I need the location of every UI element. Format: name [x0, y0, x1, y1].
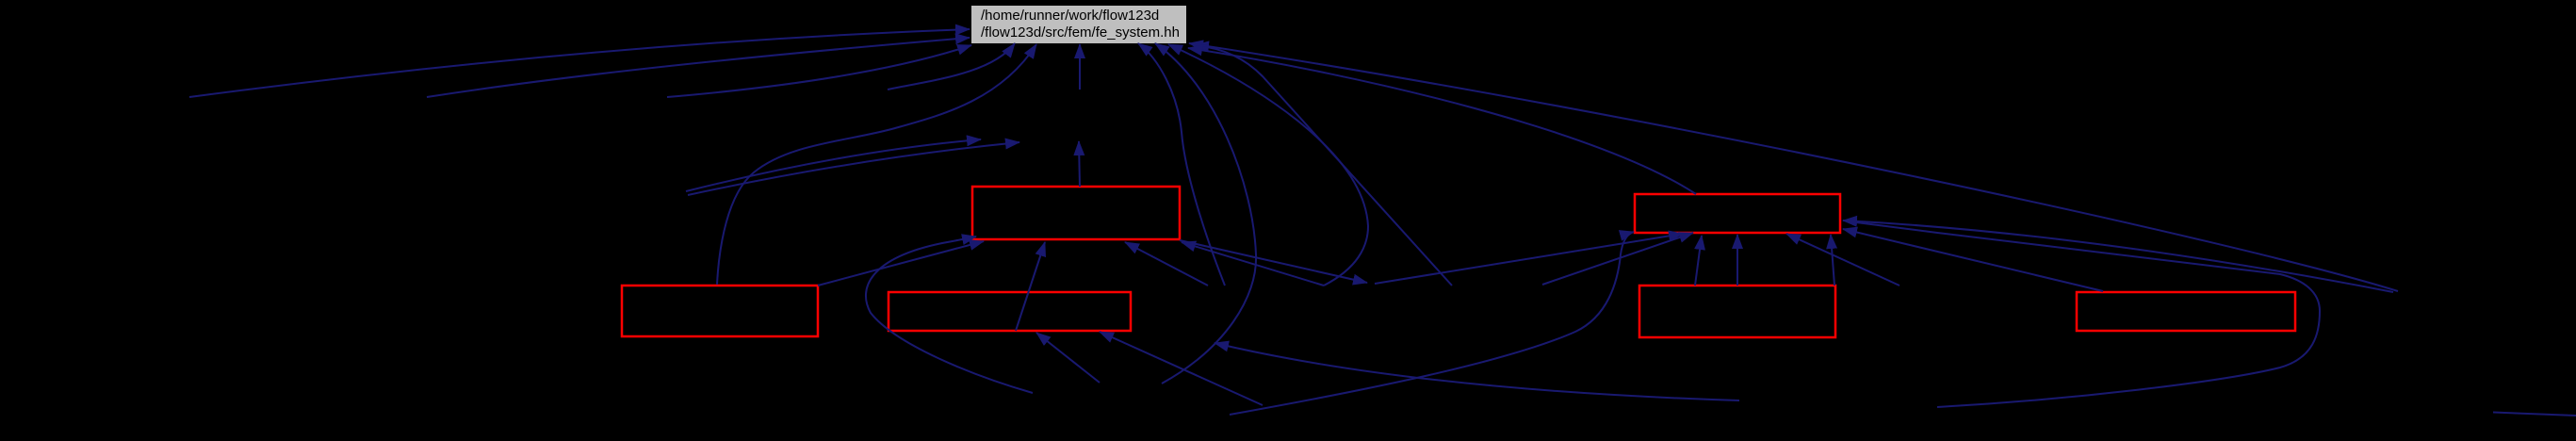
edge E22: box5 top-left area to box2 bottom [1695, 236, 1702, 286]
edge E7: bundle curve k1 from row3 invisible node to root bottom-right [1138, 43, 1225, 286]
node box6 (red, row3 right) [2077, 292, 2295, 331]
edge E6a: invisible row1 node I1 to root (vertical) [1079, 44, 1081, 90]
edge E11: box2 to root right edge [1188, 48, 1696, 194]
edge E6c: row2 node to I1 left edge (doubled pair 1) [686, 139, 981, 191]
edge E16: row4 node to box4 bottom right [1100, 332, 1263, 405]
edge E28: big arc c_big around box6 to box2 right edge [1856, 222, 2320, 407]
edge E6d: row2 node to I1 bottom (doubled pair 2) [688, 142, 1019, 195]
edge E27: lineL from far-right node to box2 right edge [1843, 220, 2393, 292]
edge E20: S1 long line from row4 node to N_b bottom-left [1215, 343, 1739, 400]
node box5 (red, row3 right-mid) [1639, 286, 1835, 337]
edge E23: box5 top to box2 bottom (vertical) [1736, 235, 1738, 286]
edge E18: row3 invisible node to box1 bottom-right corner [1182, 242, 1324, 286]
node box2 (red, row2 right) [1635, 194, 1840, 233]
edge E4: row1 node to root bottom edge [888, 43, 1015, 90]
edge E8: bundle curve k2 from row4 invisible node to root bottom-right [1155, 43, 1256, 384]
edge E15: row4 node to box4 bottom (near vertical) [1036, 333, 1100, 383]
edge E13: C-hook from row4 node around box4 left to box1 bottom-left [866, 237, 1033, 393]
edge E6b: box1 top to I1 bottom (vertical) [1079, 141, 1080, 187]
edge E9: bundle curve k3 from row3 invisible node to root bottom-right [1168, 44, 1368, 286]
edge E3: row1 node to root bottom-left corner [667, 45, 971, 97]
edge E9b: steep straight edge from row3 node N_c to root corner [1195, 45, 1452, 286]
edge E31: box5 top-right corner to box2 bottom [1831, 235, 1834, 286]
node box3 (red, row3 left) [622, 286, 818, 336]
edge E25: box6 top-left corner to box2 bottom-right [1843, 229, 2103, 291]
edge E26: big curve cA from row4 node to box2 left edge [1230, 232, 1634, 415]
edge E5: box3 S-curve up to root bottom [717, 44, 1036, 285]
edge E17: row3 invisible node N_b to box1 bottom [1125, 242, 1208, 286]
svg-text:/home/runner/work/flow123d: /home/runner/work/flow123d [981, 8, 1159, 24]
edge E21a: N_c top-left to box2 bottom-left (long flat) [1375, 234, 1683, 284]
edge E24: N_d row3 node to box2 bottom [1786, 234, 1899, 286]
node root: /home/runner/work/flow123d/flow123d/src/fem/fe_system.hh (gray filled) [971, 6, 1186, 43]
edge E2: left row1 node to root left edge [427, 38, 970, 97]
node box1 (red, row2 center) [972, 187, 1180, 239]
edge E12: box3 top-right corner to box1 bottom-left [818, 241, 984, 286]
edge E21b: N_c top-right to box2 bottom-left [1542, 233, 1693, 285]
svg-text:/flow123d/src/fem/fe_system.hh: /flow123d/src/fem/fe_system.hh [981, 24, 1180, 41]
edge E14: edge through box4 up to box1 bottom [1016, 242, 1045, 331]
node box4 (red, row3 mid) [889, 292, 1131, 331]
edge E30: far-right bottom corner segment [2493, 413, 2576, 416]
edge E10: far-right invisible node to root right edge (long) [1189, 43, 2398, 291]
edge E1: far-left row1 node to root left edge [189, 29, 970, 97]
edge E19: box1 bottom-right corner to row3 invisible node N_c [1180, 240, 1367, 283]
